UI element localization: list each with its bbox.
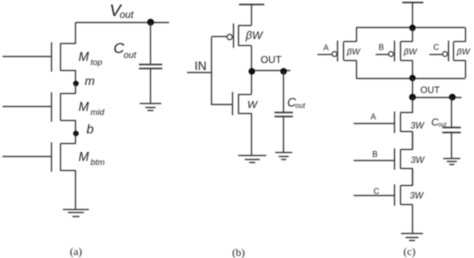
transistor PMOS C (c): [429, 28, 465, 78]
capacitor Cout (a): [139, 22, 162, 103]
svg-text:btm: btm: [91, 157, 105, 167]
ground (b) main: [238, 156, 266, 163]
wire bottom bus (c): [356, 78, 465, 80]
label A (c nmos): [371, 113, 377, 122]
transistor M_mid: [3, 84, 76, 134]
transistor M_btm: [3, 134, 76, 210]
svg-text:3W: 3W: [410, 190, 425, 200]
wire IN (b): [187, 72, 212, 74]
svg-text:A: A: [323, 44, 329, 53]
label C (c pmos): [433, 43, 439, 52]
wire OUT (b): [252, 70, 291, 72]
svg-text:(a): (a): [70, 246, 83, 258]
label Vout: [110, 1, 135, 21]
label M_mid: [79, 100, 105, 117]
svg-text:B: B: [379, 43, 384, 52]
label m: [85, 74, 95, 88]
capacitor Cout (c): [442, 97, 461, 158]
wire OUT (c): [413, 97, 462, 99]
label W (b): [247, 99, 258, 111]
caption (b): [232, 247, 245, 258]
svg-text:mid: mid: [91, 107, 105, 117]
svg-text:βW: βW: [346, 46, 361, 56]
transistor M_top: [3, 22, 76, 83]
label bW (b): [245, 30, 264, 42]
label bW B (c): [403, 46, 418, 56]
ground under Cout (c): [443, 159, 460, 165]
svg-text:OUT: OUT: [261, 55, 282, 66]
transistor PMOS B (c): [376, 28, 413, 78]
svg-text:M: M: [79, 50, 90, 64]
transistor NMOS C (c): [354, 168, 413, 233]
svg-text:B: B: [372, 150, 377, 159]
label Cout (b): [287, 95, 306, 110]
wire input bus (b): [211, 37, 213, 105]
svg-text:out: out: [120, 10, 135, 21]
wire Vout rail: [76, 22, 169, 24]
power rail (c): [402, 2, 423, 4]
node VDD junction (c): [409, 25, 415, 31]
ground (a) main: [63, 210, 89, 217]
label 3W A (c): [410, 121, 425, 131]
label Cout (a): [114, 40, 137, 60]
label B (c pmos): [379, 43, 384, 52]
svg-text:W: W: [247, 99, 258, 111]
label M_btm: [79, 150, 105, 167]
caption (a): [70, 246, 83, 258]
power rail (b): [239, 4, 264, 6]
label bW A (c): [346, 46, 361, 56]
node cap tap (b): [280, 68, 287, 75]
node b: [73, 131, 79, 137]
label 3W B (c): [411, 155, 426, 165]
transistor PMOS A (c): [318, 28, 357, 78]
svg-text:βW: βW: [245, 30, 264, 42]
label 3W C (c): [410, 190, 425, 200]
transistor NMOS W (b): [212, 71, 252, 156]
node Vout junction: [147, 19, 154, 26]
label M_top: [79, 50, 103, 67]
svg-text:3W: 3W: [411, 155, 426, 165]
svg-text:M: M: [79, 150, 90, 164]
node m: [73, 81, 79, 87]
label C (c nmos): [374, 187, 380, 196]
label B (c nmos): [372, 150, 377, 159]
svg-text:βW: βW: [456, 46, 471, 56]
ground (c) main: [401, 234, 423, 241]
wire bus to OUT (c): [412, 78, 414, 97]
node cap tap (c): [449, 94, 456, 101]
svg-text:C: C: [433, 43, 439, 52]
capacitor Cout (b): [274, 71, 293, 152]
svg-text:(b): (b): [232, 247, 245, 258]
svg-text:M: M: [79, 100, 90, 114]
transistor NMOS B (c): [354, 132, 413, 186]
svg-text:3W: 3W: [410, 121, 425, 131]
svg-text:m: m: [85, 74, 95, 88]
node pdn junction (c): [409, 75, 415, 81]
caption (c): [403, 246, 416, 258]
svg-text:OUT: OUT: [420, 85, 440, 95]
wire top bus (c): [356, 27, 465, 29]
label IN: [195, 59, 207, 73]
node OUT junction (c): [409, 94, 416, 101]
ground under Cout (a): [140, 104, 162, 111]
svg-text:top: top: [91, 57, 103, 67]
svg-text:out: out: [295, 103, 306, 110]
svg-text:b: b: [87, 122, 94, 137]
transistor NMOS A (c): [354, 97, 413, 150]
svg-text:C: C: [374, 187, 380, 196]
label OUT (c): [420, 85, 440, 95]
svg-text:βW: βW: [403, 46, 418, 56]
ground under Cout (b): [275, 153, 292, 160]
svg-text:A: A: [371, 113, 377, 122]
label b: [87, 122, 94, 137]
wire VDD to PMOS (b): [251, 4, 253, 25]
svg-text:IN: IN: [195, 59, 207, 73]
node OUT junction (b): [249, 68, 256, 75]
wire VDD drop (c): [412, 2, 414, 28]
label Cout (c): [431, 118, 446, 129]
transistor PMOS bW (b): [212, 23, 252, 71]
svg-text:out: out: [124, 50, 137, 60]
label OUT (b): [261, 55, 282, 66]
label bW C (c): [456, 46, 471, 56]
svg-text:(c): (c): [403, 246, 416, 258]
label A (c pmos): [323, 44, 329, 53]
